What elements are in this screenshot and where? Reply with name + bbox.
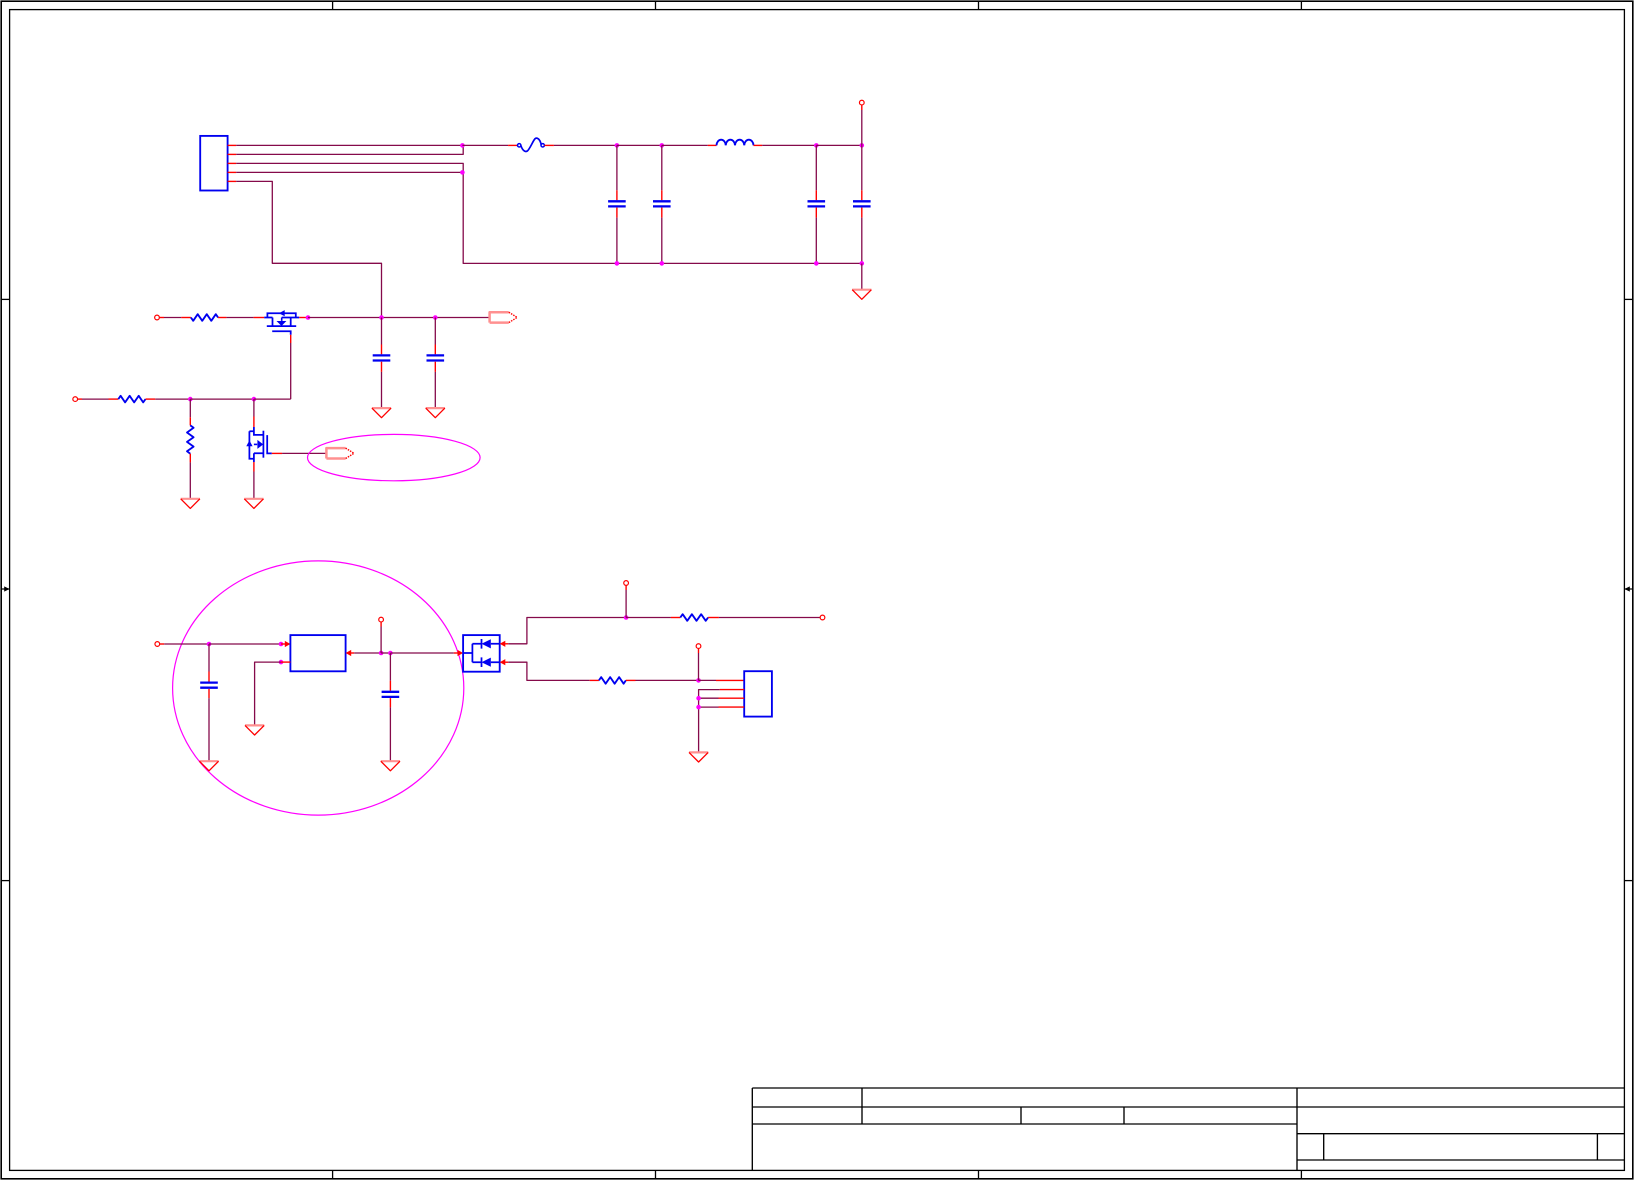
junction U1 pin2 [279,660,284,665]
Q1 source pin [254,317,265,319]
U1 pin1 stub [281,643,286,645]
P8 stub [698,648,700,653]
ground GND C6 [426,408,445,418]
C5 bottom pin [381,362,383,372]
C1 top pin [616,190,618,200]
connector J2 [744,671,772,716]
C6 bottom pin [434,362,436,372]
R3 left pin [671,617,680,619]
pin P2 input [155,315,160,320]
resistor R2 [118,396,145,403]
J1 pin 5 [228,180,237,182]
wire Q1 drain to OUT [308,317,490,319]
regulator U1 [290,635,345,671]
wire J1.3 to ground bus [236,163,463,172]
junction C3 top [814,143,819,148]
C2 top pin [661,190,663,200]
capacitor C5 [373,355,391,360]
fuse F1 [518,138,545,151]
ellipse highlight large [173,561,464,815]
wire P8 down [698,653,700,680]
ground GND1 [852,290,871,300]
junction C4 bottom [860,261,865,266]
power pin P8 [696,644,701,649]
junction C2 bottom [660,261,665,266]
wire C6 upper [434,318,436,345]
C4 top pin [861,190,863,200]
wire L1 to C3 node [762,144,816,146]
C2 bottom pin [661,208,663,218]
C7 top pin [208,672,210,682]
P5 stub [380,622,382,627]
capacitor C8 [382,692,400,697]
ground GND R6 [181,499,200,509]
Q2 drain pin [253,417,255,428]
wire P8 node to J2 [699,679,717,681]
wire R6 upper [189,399,191,417]
wire R6 lower [189,462,191,498]
J2 pin4 stub [719,706,745,708]
D1 pin1 stub [505,643,508,645]
wire J2 pin4 to ground [699,706,719,708]
net label GATE arrow [326,448,354,458]
connector J1 [200,136,227,191]
capacitor C4 [853,201,871,206]
transistor Q2 [246,427,271,462]
C4 bottom pin [861,208,863,218]
wire P2 to R1 [164,317,181,319]
wire R6 node to Q2 node [190,398,254,400]
C7 bottom pin [208,689,210,698]
wire Q2 source lower [253,472,255,499]
U1 out arrow [346,650,352,656]
wire P5 node to C8 node [381,652,390,654]
junction C1 top [615,143,620,148]
wire F1 to C1 node [554,144,617,146]
J1 pin 4 [228,171,237,173]
wire ground bus down [463,172,617,263]
capacitor C6 [427,355,445,360]
junction C5 top [379,315,384,320]
J2 pin1 stub [716,679,744,681]
C6 top pin [434,345,436,355]
C8 bottom pin [389,698,391,707]
wire C6 lower [434,372,436,408]
J1 pin 1 [228,144,237,146]
pin P4 supply [155,642,160,647]
wire Q1 gate down [290,343,292,399]
ground GND J2 [689,752,708,762]
R4 left pin [590,679,599,681]
resistor R3 [680,614,708,621]
Q2 gate pin [272,452,282,454]
R1 right pin [218,317,226,319]
wire R1 to Q1 [226,317,253,319]
wire C3 lower [815,218,817,264]
wire C2 upper [661,145,663,190]
R2 left pin [109,398,119,400]
junction C2 top [660,143,665,148]
ground GND U1 [245,725,264,735]
C3 top pin [815,190,817,200]
U1 pin2 stub [281,661,290,663]
wire P4 to C7 node [164,643,209,645]
resistor R6 [187,425,194,453]
wire C5 lower [381,372,383,408]
C1 bottom pin [616,208,618,218]
junction C7 top [207,642,212,647]
D1 pin1 arrow [500,641,506,647]
wire VIN down to rail [861,110,863,145]
junction ground pins 3-4 [460,170,465,175]
wire P7 down [625,590,627,618]
junction C8 top [388,651,393,656]
Q2 source pin [253,462,255,472]
wire C4 upper [861,145,863,190]
wire R3 to P6 [719,617,821,619]
wire Q2 node to Q1 gate [254,398,291,400]
wire C1 node to C2 node [617,144,662,146]
junction R6 top [188,397,193,402]
junction P8 node [696,678,701,683]
L1 right pin [754,144,763,146]
D1 pin2 arrow [500,659,506,665]
wire U1 pin2 to ground [255,662,281,725]
wire J2 pin2 to ground [699,690,720,753]
R1 left pin [181,317,191,319]
wire R2 to R6 node [155,398,190,400]
wire J1.2 to node VBUS [236,145,463,154]
dual diode D1 [463,635,500,672]
R4 right pin [626,679,636,681]
wire R4 to P8 node [636,679,699,681]
P2 stub [159,317,164,319]
wire C5 upper [381,318,383,345]
wire C8 upper [389,653,391,681]
power pin P5 [379,617,384,622]
wire C8 node to D1 [390,652,453,654]
J1 pin 2 [228,153,237,155]
D1 pin2 stub [505,661,508,663]
wire P5 down [380,627,382,654]
wire C4 lower [861,218,863,264]
wire Q2 gate to label [282,452,326,454]
junction C3 bottom [814,261,819,266]
VIN pin stub [861,105,863,110]
R3 right pin [708,617,719,619]
junction P7 node [624,615,629,620]
pin P3 control [73,397,78,402]
C5 top pin [381,345,383,355]
L1 left pin [708,144,717,146]
ground GND C8 [381,761,400,771]
title block [752,1088,1624,1170]
wire J1.1 to node VBUS [236,144,462,146]
F1 left pin [508,144,517,146]
wire C7 upper [208,644,210,672]
ground GND C5 [372,408,391,418]
ground GND C7 [199,761,218,771]
junction Q1 drain [306,315,311,320]
power pin VIN [859,100,864,105]
C3 bottom pin [815,208,817,218]
junction U1 in [279,642,284,647]
wire Q2 drain upper [253,399,255,416]
wire C8 lower [389,707,391,761]
pin P6 output [820,615,825,620]
wire C3 node to VOUT node [816,144,862,146]
U1 out stub [351,652,354,654]
R6 top pin [189,417,191,425]
junction C6 top [433,315,438,320]
resistor R1 [191,314,218,321]
J2 pin2 stub [720,689,745,691]
wire C2 node to L1 [662,144,708,146]
junction C1 bottom [615,261,620,266]
C8 top pin [389,681,391,691]
wire C2 lower [661,218,663,264]
ellipse highlight small [308,434,481,480]
junction VBUS pins 1-2 [460,143,465,148]
resistor R4 [599,677,626,684]
R6 bottom pin [189,454,191,463]
wire C7 node to U1 [209,643,281,645]
wire C7 lower [208,698,210,761]
U1 pin1 arrow [285,641,291,647]
Q1 drain pin [299,317,308,319]
power pin P7 [624,581,629,586]
F1 right pin [544,144,554,146]
wire ground rail drop [861,263,863,289]
capacitor C1 [608,201,626,206]
D1 common arrow [458,650,464,656]
R2 right pin [146,398,156,400]
wire VBUS to F1 [462,144,508,146]
net label OUT arrow [490,312,518,322]
wire P3 to R2 [82,398,109,400]
P4 stub [159,643,164,645]
transistor Q1 [264,310,299,335]
P3 stub [77,398,82,400]
wire J1.5 down to Q1 drain net [236,181,381,317]
junction Q2 drain node [252,397,257,402]
wire C1 lower [616,218,618,264]
junction J2 pin4 [696,705,701,710]
wire C1 upper [616,145,618,190]
wire D1 to R4 net [508,662,590,680]
wire J1.4 to ground bus [236,171,462,173]
wire C3 upper [815,145,817,190]
wire J2 pin3 to ground [699,697,719,699]
Q1 gate pin [290,335,292,343]
wire U1 out [354,652,381,654]
capacitor C7 [200,683,218,688]
J1 pin 3 [228,162,237,164]
junction P5 node [379,651,384,656]
wire ground rail [617,262,862,264]
capacitor C2 [653,201,671,206]
capacitor C3 [808,201,826,206]
junction J2 pin3 [696,696,701,701]
inductor L1 [717,140,754,146]
ground GND Q2 [244,499,263,509]
junction VIN top [860,143,865,148]
wire D1 to R3 net [508,618,626,644]
P7 stub [625,585,627,590]
wire P7 node to R3 [626,617,671,619]
D1 common stub [454,652,458,654]
J2 pin3 stub [719,697,745,699]
